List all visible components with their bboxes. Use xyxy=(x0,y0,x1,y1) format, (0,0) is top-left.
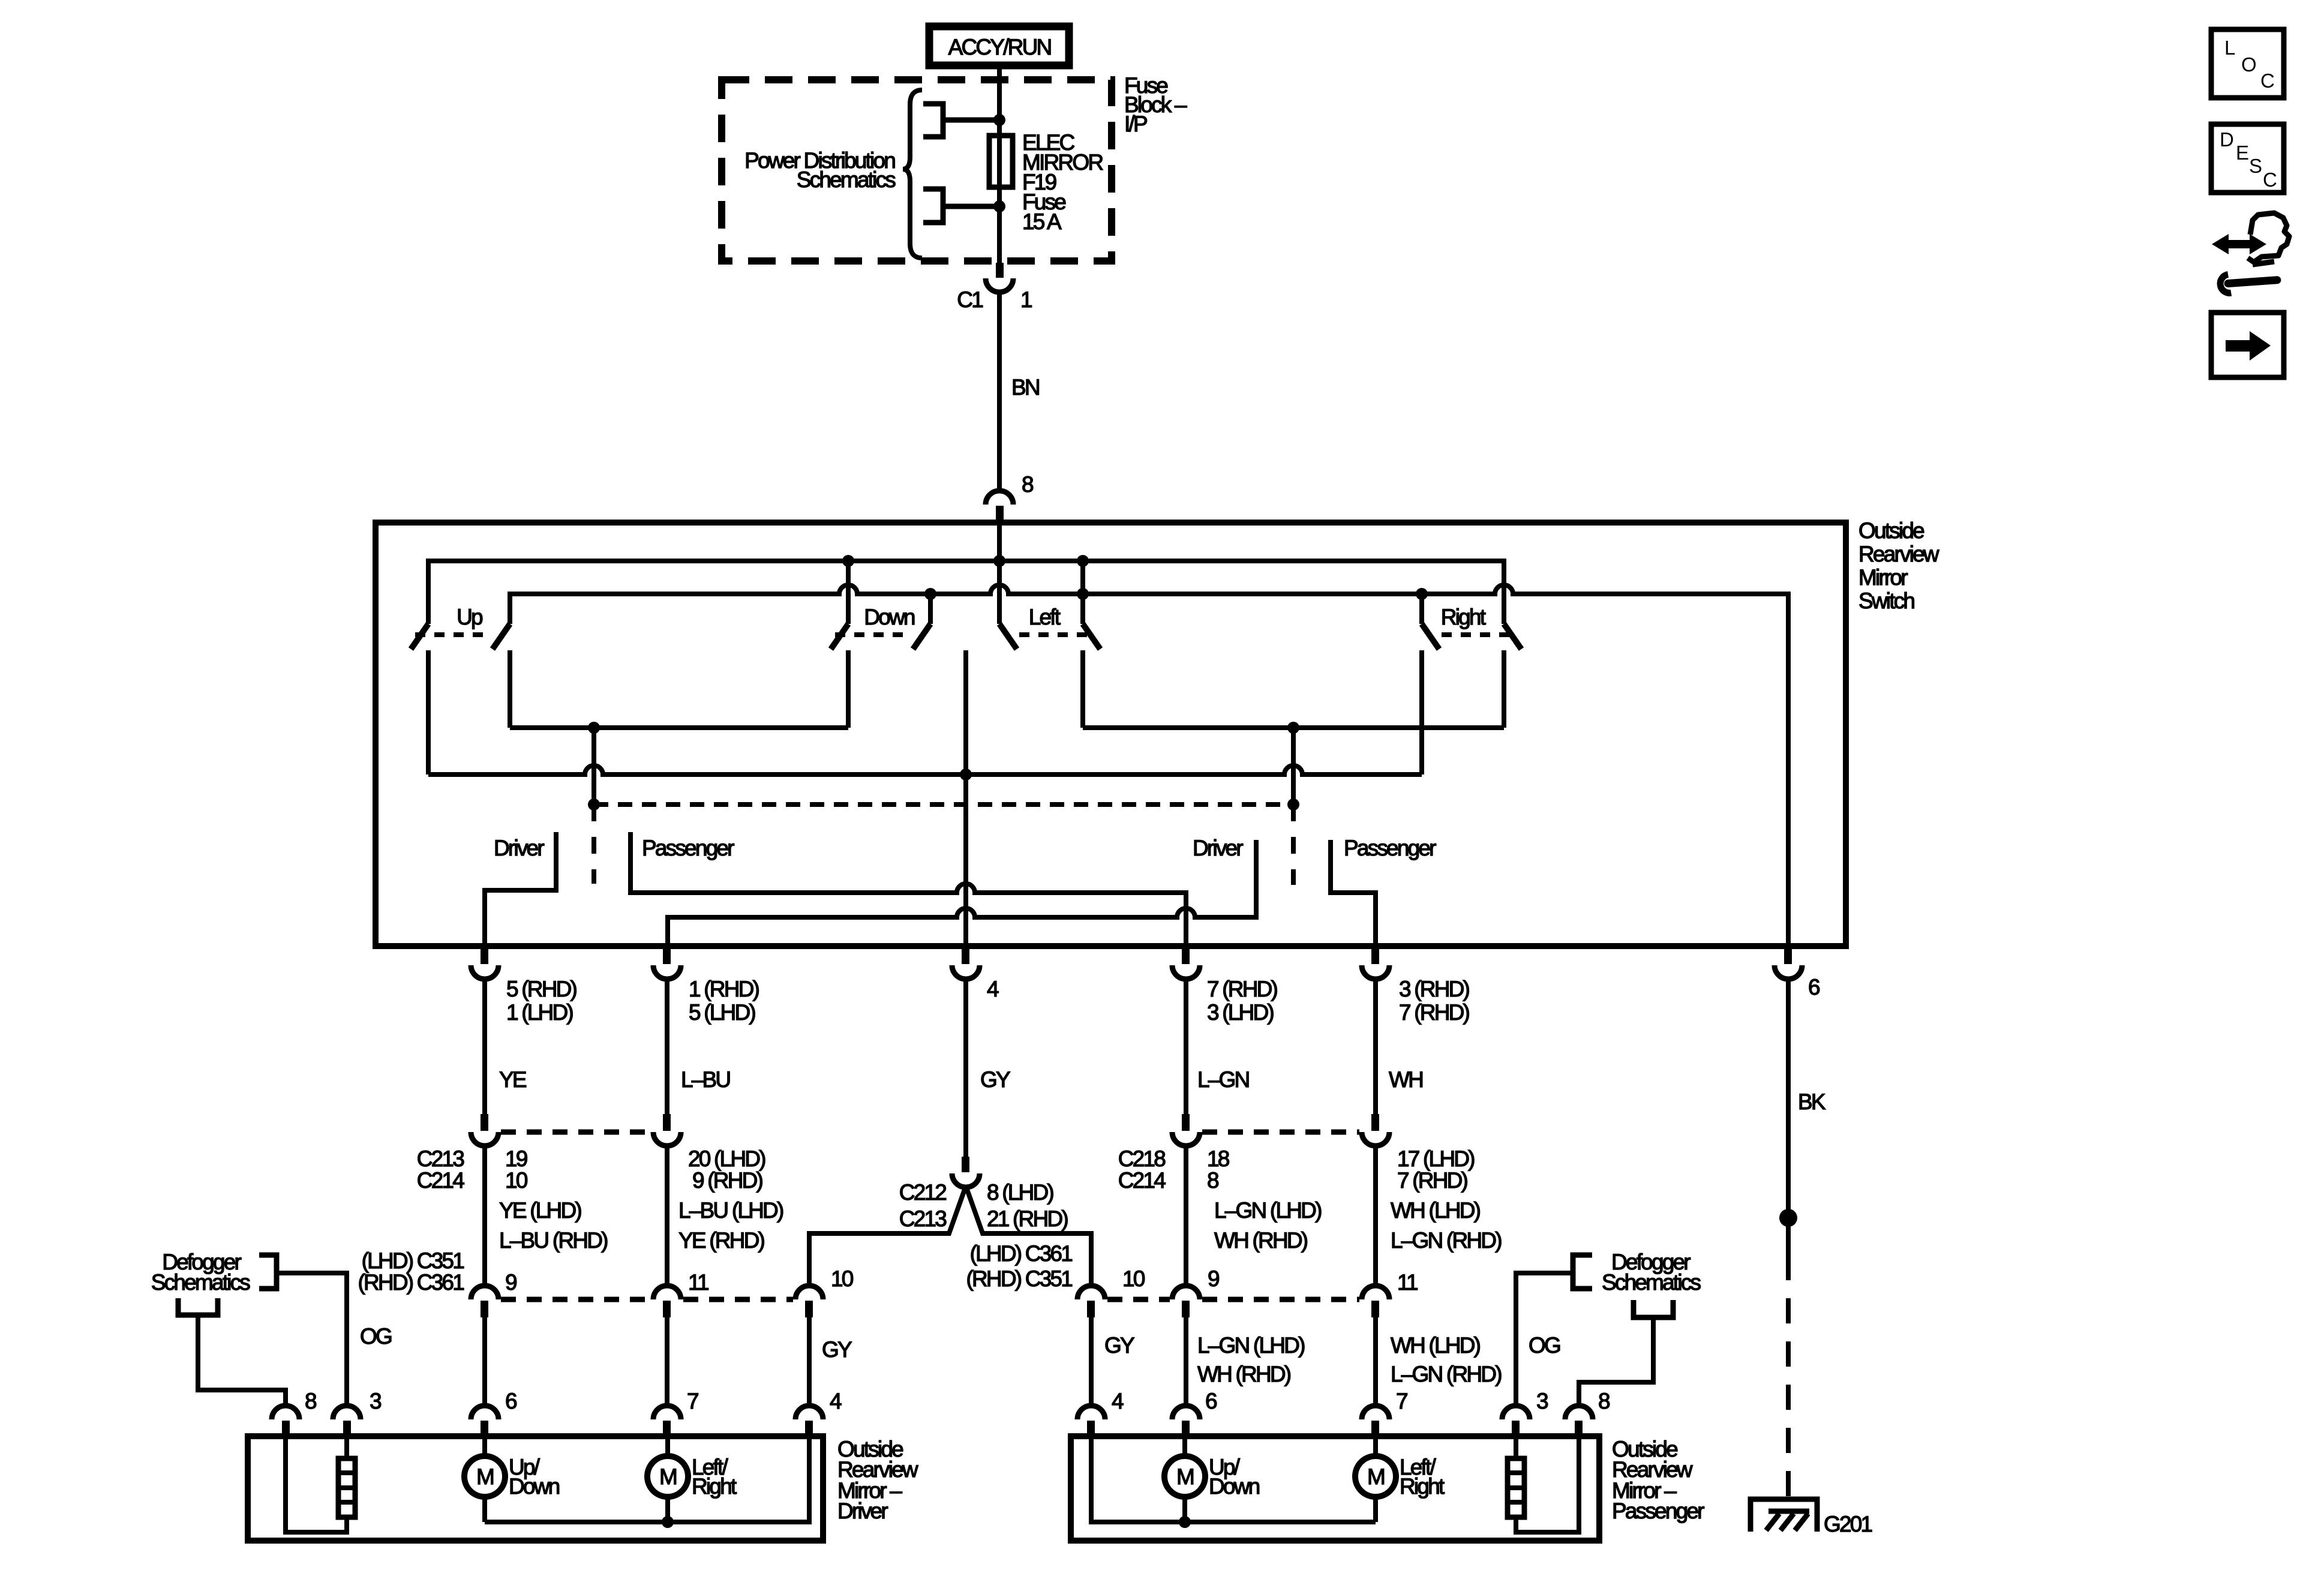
junction dot row2 right-left contact xyxy=(1416,588,1428,600)
wire horizontal link right y1213 xyxy=(1083,725,1504,730)
wire from ACCY/RUN through fuse xyxy=(997,65,1002,267)
wire WH harness segment xyxy=(1373,1145,1378,1286)
svg-text:8 (LHD): 8 (LHD) xyxy=(987,1180,1053,1205)
connector switch pin 1(RHD)/5(LHD) xyxy=(653,948,759,1025)
svg-text:9: 9 xyxy=(505,1270,517,1295)
wire OG defogger to driver pin 3 xyxy=(277,1273,347,1404)
label Outside Rearview Mirror - Driver xyxy=(837,1437,918,1523)
wire up-right lower xyxy=(508,650,512,728)
connector driver pin 4 xyxy=(795,1389,842,1436)
svg-text:(RHD) C361: (RHD) C361 xyxy=(358,1270,464,1295)
svg-text:M: M xyxy=(1367,1464,1384,1489)
wire right-left lower to rail xyxy=(1419,650,1424,775)
wire row2 bus with hops at 1414 1666 2507 xyxy=(510,585,1788,946)
svg-text:C: C xyxy=(2263,169,2277,191)
svg-text:6: 6 xyxy=(505,1389,517,1413)
driver mirror box xyxy=(248,1436,823,1541)
wire L-GN harness segment xyxy=(1184,1145,1188,1286)
svg-text:8: 8 xyxy=(305,1389,316,1413)
svg-text:M: M xyxy=(476,1464,493,1489)
connector driver pin 7 xyxy=(653,1389,698,1436)
svg-text:Passenger: Passenger xyxy=(1344,836,1436,860)
connector passenger pin 8 xyxy=(1565,1389,1610,1436)
svg-text:OG: OG xyxy=(1529,1333,1560,1358)
connector pin 8 at switch xyxy=(986,472,1033,524)
svg-text:9: 9 xyxy=(1208,1266,1219,1291)
mechanical link dashes Left xyxy=(1019,632,1095,637)
wire center common lower to pin 4 xyxy=(963,650,968,948)
wire YE/L-BU harness segment left xyxy=(482,1145,487,1286)
svg-text:4: 4 xyxy=(1112,1389,1124,1413)
switch blade right-left xyxy=(1422,624,1439,649)
junction dot row2 left-right contact xyxy=(1077,588,1089,600)
junction dot drop-left on y1213 xyxy=(588,722,600,734)
svg-text:L–GN (RHD): L–GN (RHD) xyxy=(1391,1362,1502,1386)
connector C212/C213 pin 8(LHD)/21(RHD) crossover xyxy=(899,1157,1068,1231)
wire drop-right solid xyxy=(1291,728,1296,804)
svg-text:BK: BK xyxy=(1798,1089,1826,1114)
svg-text:7: 7 xyxy=(687,1389,698,1413)
wire left-right contact upper xyxy=(1080,561,1085,624)
bracket defogger left xyxy=(259,1255,277,1289)
svg-text:Rearview: Rearview xyxy=(1858,542,1939,566)
svg-text:L–BU (LHD): L–BU (LHD) xyxy=(678,1198,783,1223)
mechanical link dashes Right xyxy=(1442,632,1517,637)
connector driver pin 6 xyxy=(471,1389,517,1436)
wire driver motor common return xyxy=(485,1436,809,1522)
svg-text:YE: YE xyxy=(499,1067,527,1092)
svg-text:YE (LHD): YE (LHD) xyxy=(499,1198,581,1223)
wire YE switch to C213 xyxy=(482,978,487,1114)
junction dot row2 down-right contact xyxy=(924,588,936,600)
label ELEC MIRROR F19 Fuse 15 A xyxy=(1022,130,1103,234)
defogger element driver xyxy=(286,1436,355,1532)
connector C361/C351 pin 9 right xyxy=(1172,1266,1219,1317)
svg-text:8: 8 xyxy=(1598,1389,1610,1413)
wire L-BU to driver mirror pin 7 xyxy=(665,1316,669,1404)
label Fuse Block - I/P xyxy=(1124,73,1187,136)
switch blade right-right xyxy=(1504,624,1521,649)
junction splice on BK wire xyxy=(1779,1209,1797,1227)
wire up-left lower to rail xyxy=(426,650,431,775)
svg-text:21 (RHD): 21 (RHD) xyxy=(987,1206,1068,1231)
svg-text:WH (LHD): WH (LHD) xyxy=(1391,1198,1481,1223)
svg-text:Up: Up xyxy=(457,605,483,629)
svg-text:Driver: Driver xyxy=(494,836,544,860)
wire WH switch to C218 xyxy=(1373,978,1378,1114)
label Defogger Schematics left xyxy=(151,1250,251,1295)
svg-text:15 A: 15 A xyxy=(1022,209,1062,234)
svg-text:7 (RHD): 7 (RHD) xyxy=(1399,1000,1470,1025)
junction dot above fuse xyxy=(993,114,1005,126)
mechanical link dashed vertical right xyxy=(1291,804,1296,885)
wire passenger-right output to pin 3RHD/7RHD xyxy=(1331,840,1376,948)
wire passenger-left output to pin 7RHD/3LHD with hop at 1610 xyxy=(630,832,1186,948)
svg-text:E: E xyxy=(2236,142,2249,164)
connector switch pin 7(RHD)/3(LHD) xyxy=(1172,948,1278,1025)
mechanical link dashes Up xyxy=(415,632,491,637)
label Power Distribution Schematics xyxy=(744,148,896,192)
svg-text:Outside: Outside xyxy=(1858,518,1924,543)
junction dot row1 down-left contact xyxy=(842,555,854,567)
svg-text:4: 4 xyxy=(830,1389,842,1413)
label Outside Rearview Mirror Switch xyxy=(1858,518,1939,613)
svg-text:L–GN: L–GN xyxy=(1197,1067,1249,1092)
svg-text:Down: Down xyxy=(1209,1474,1260,1499)
svg-text:20 (LHD): 20 (LHD) xyxy=(688,1146,765,1171)
svg-text:Schematics: Schematics xyxy=(797,167,896,192)
fuse ELEC MIRROR F19 15 A xyxy=(989,136,1013,187)
wire defogger to passenger pin 8 xyxy=(1579,1317,1653,1404)
svg-text:1 (LHD): 1 (LHD) xyxy=(506,1000,573,1025)
wire BN from C1 to switch pin 8 xyxy=(997,291,1002,491)
svg-text:WH: WH xyxy=(1389,1067,1422,1092)
switch blade up-left xyxy=(411,624,428,649)
switch blade down-left xyxy=(831,624,848,649)
svg-text:GY: GY xyxy=(822,1337,852,1362)
dashed connector interface C218 row right xyxy=(1202,1130,1359,1135)
connector C213/C214 pin 19/10 xyxy=(417,1114,528,1193)
connector C351/C361 pin 9 xyxy=(471,1270,517,1317)
connector C361/C351 pin 10 right xyxy=(1077,1266,1145,1317)
connector passenger pin 3 xyxy=(1502,1389,1548,1436)
svg-text:Right: Right xyxy=(1400,1474,1445,1499)
motor driver left/right xyxy=(647,1436,737,1522)
wire GY split right branch xyxy=(966,1186,1091,1286)
motor passenger left/right xyxy=(1355,1436,1445,1522)
fuse block dashed outline (Fuse Block - I/P) xyxy=(722,80,1112,261)
wire GY to driver mirror pin 4 xyxy=(807,1316,812,1404)
svg-text:8: 8 xyxy=(1207,1168,1218,1193)
svg-text:L–BU (RHD): L–BU (RHD) xyxy=(499,1228,608,1253)
svg-text:(RHD) C351: (RHD) C351 xyxy=(966,1266,1072,1291)
connector switch pin 4 xyxy=(952,948,999,1001)
wire right-left contact upper xyxy=(1419,594,1424,624)
svg-text:WH (RHD): WH (RHD) xyxy=(1197,1362,1291,1386)
svg-text:6: 6 xyxy=(1205,1389,1217,1413)
svg-text:L–GN (LHD): L–GN (LHD) xyxy=(1197,1333,1305,1358)
junction dot row1 left-right contact xyxy=(1077,555,1089,567)
junction dot drop-right on y1213 xyxy=(1287,722,1299,734)
svg-text:M: M xyxy=(659,1464,676,1489)
svg-text:Down: Down xyxy=(509,1474,560,1499)
motor driver up/down xyxy=(464,1436,560,1522)
switch blade left-right xyxy=(1083,624,1100,649)
mechanical link dashed horizontal y1341 xyxy=(594,802,1293,807)
svg-text:I/P: I/P xyxy=(1124,112,1147,136)
bracket defogger right lower xyxy=(1634,1300,1673,1317)
svg-text:L–GN (RHD): L–GN (RHD) xyxy=(1391,1228,1502,1253)
svg-text:C218: C218 xyxy=(1118,1146,1165,1171)
svg-text:Schematics: Schematics xyxy=(151,1270,251,1295)
svg-text:WH (RHD): WH (RHD) xyxy=(1214,1228,1308,1253)
switch blade up-right xyxy=(493,624,510,649)
svg-text:1: 1 xyxy=(1020,287,1032,312)
svg-text:5 (LHD): 5 (LHD) xyxy=(689,1000,755,1025)
svg-text:C: C xyxy=(2260,70,2275,92)
svg-text:L–BU: L–BU xyxy=(681,1067,729,1092)
connector C218/C214 pin 18/8 xyxy=(1118,1114,1229,1193)
junction dot passenger return xyxy=(1179,1516,1191,1528)
svg-text:Schematics: Schematics xyxy=(1602,1270,1701,1295)
svg-text:Right: Right xyxy=(1441,605,1487,629)
label Outside Rearview Mirror - Passenger xyxy=(1612,1437,1704,1523)
wire feed inside switch from pin 8 xyxy=(997,523,1002,624)
svg-text:4: 4 xyxy=(987,977,999,1001)
label Defogger Schematics right xyxy=(1602,1250,1701,1295)
dashed connector interface C213 row left xyxy=(501,1130,651,1135)
icon LOC box xyxy=(2211,29,2284,98)
defogger element passenger xyxy=(1508,1436,1579,1532)
svg-text:Mirror: Mirror xyxy=(1858,565,1908,590)
wire OG defogger to passenger pin 3 xyxy=(1516,1273,1573,1404)
svg-text:O: O xyxy=(2241,53,2257,76)
svg-text:Passenger: Passenger xyxy=(642,836,734,860)
svg-text:Passenger: Passenger xyxy=(1612,1499,1704,1523)
outside rearview mirror switch box xyxy=(376,523,1846,946)
brace pointing to power distribution xyxy=(903,90,922,258)
svg-text:C214: C214 xyxy=(1118,1168,1166,1193)
svg-text:11: 11 xyxy=(688,1270,708,1295)
svg-text:M: M xyxy=(1176,1464,1193,1489)
svg-text:10: 10 xyxy=(831,1266,854,1291)
svg-text:Left: Left xyxy=(1029,605,1061,629)
svg-text:Driver: Driver xyxy=(837,1499,888,1523)
svg-text:10: 10 xyxy=(1122,1266,1145,1291)
junction dot mech right xyxy=(1287,798,1299,810)
connector tab lower xyxy=(923,189,999,223)
mechanical link dashed vertical left xyxy=(591,804,596,884)
svg-text:GY: GY xyxy=(1104,1333,1134,1358)
junction dot center common on rail xyxy=(960,769,972,781)
svg-text:7 (RHD): 7 (RHD) xyxy=(1397,1168,1468,1193)
wire L-GN switch to C218 xyxy=(1184,978,1188,1114)
connector C351/C361 pin 10 left xyxy=(795,1266,854,1317)
icon hand with wrench xyxy=(2212,213,2289,293)
svg-text:7 (RHD): 7 (RHD) xyxy=(1207,977,1278,1001)
svg-text:(LHD) C351: (LHD) C351 xyxy=(362,1248,464,1273)
svg-text:11: 11 xyxy=(1397,1270,1418,1295)
svg-text:3 (RHD): 3 (RHD) xyxy=(1399,977,1470,1001)
svg-text:BN: BN xyxy=(1011,375,1039,400)
connector C1 pin 1 xyxy=(957,263,1032,312)
connector switch pin 3(RHD)/7(RHD) xyxy=(1362,948,1470,1025)
wire down-left contact upper xyxy=(846,561,851,624)
icon DESC box xyxy=(2211,124,2284,193)
connector switch pin 6 xyxy=(1774,948,1819,999)
connector passenger pin 6 xyxy=(1172,1389,1217,1436)
svg-text:OG: OG xyxy=(360,1324,392,1349)
svg-text:C1: C1 xyxy=(957,287,983,312)
svg-text:L: L xyxy=(2224,37,2235,59)
bracket defogger right xyxy=(1573,1255,1592,1289)
wire drop-left solid xyxy=(591,728,596,804)
svg-text:3: 3 xyxy=(1536,1389,1548,1413)
wire L-GN to passenger mirror pin 6 xyxy=(1184,1316,1188,1404)
svg-text:Down: Down xyxy=(864,605,915,629)
wire rail y1291 with hops at 990 and 2156 xyxy=(428,766,1422,775)
bracket defogger left lower xyxy=(178,1298,218,1315)
svg-text:18: 18 xyxy=(1207,1146,1229,1171)
connector passenger pin 7 xyxy=(1362,1389,1407,1436)
connector switch pin 5(RHD)/1(LHD) xyxy=(471,948,577,1025)
wire YE to driver mirror pin 6 xyxy=(482,1316,487,1404)
svg-text:C213: C213 xyxy=(899,1206,946,1231)
wire passenger motor common return xyxy=(1091,1436,1376,1522)
svg-text:WH (LHD): WH (LHD) xyxy=(1391,1333,1481,1358)
svg-text:GY: GY xyxy=(980,1067,1010,1092)
wire right-right lower xyxy=(1502,650,1506,728)
junction dot driver return xyxy=(662,1516,674,1528)
svg-text:D: D xyxy=(2220,128,2234,151)
connector tab upper xyxy=(923,104,999,137)
wire horizontal link left y1213 xyxy=(510,725,848,730)
wire L-BU/YE harness segment xyxy=(665,1145,669,1286)
connector C213/C214 pin 20(LHD)/9(RHD) xyxy=(653,1114,765,1193)
svg-text:19: 19 xyxy=(505,1146,527,1171)
svg-text:9 (RHD): 9 (RHD) xyxy=(692,1168,763,1193)
svg-text:3 (LHD): 3 (LHD) xyxy=(1207,1000,1274,1025)
wire row1 bus xyxy=(428,561,1504,624)
icon arrow box xyxy=(2211,313,2284,377)
junction dot feed to row1 xyxy=(993,555,1005,567)
junction dot below fuse xyxy=(993,200,1005,212)
connector driver pin 3 xyxy=(333,1389,381,1436)
svg-text:5 (RHD): 5 (RHD) xyxy=(506,977,577,1001)
svg-text:7: 7 xyxy=(1396,1389,1407,1413)
mechanical link dashes Down xyxy=(835,632,911,637)
connector driver pin 8 xyxy=(272,1389,316,1436)
wire BK dashed to ground xyxy=(1786,1255,1791,1496)
wire BK switch pin 6 down xyxy=(1786,978,1791,1255)
wire GY switch to C212 xyxy=(963,978,968,1157)
wire down-left lower xyxy=(846,650,851,728)
connector passenger pin 4 xyxy=(1077,1389,1124,1436)
wire down-right contact upper xyxy=(928,594,933,624)
svg-text:3: 3 xyxy=(370,1389,381,1413)
svg-text:C212: C212 xyxy=(899,1180,946,1205)
ground G201 xyxy=(1750,1499,1872,1536)
wire driver-right output to pin 1RHD/5LHD with hops at 1610 1977 xyxy=(668,840,1256,948)
svg-text:8: 8 xyxy=(1022,472,1033,497)
switch blade left-left xyxy=(999,624,1017,649)
svg-text:C213: C213 xyxy=(417,1146,464,1171)
switch blade down-right xyxy=(913,624,930,649)
svg-text:YE (RHD): YE (RHD) xyxy=(678,1228,765,1253)
svg-text:Right: Right xyxy=(692,1474,737,1499)
wire L-BU switch to C213 xyxy=(665,978,669,1114)
svg-text:Switch: Switch xyxy=(1858,589,1914,613)
svg-text:ACCY/RUN: ACCY/RUN xyxy=(948,35,1051,59)
svg-text:C214: C214 xyxy=(417,1168,464,1193)
svg-text:10: 10 xyxy=(505,1168,528,1193)
wire defogger to driver pin 8 xyxy=(198,1315,286,1404)
svg-text:1 (RHD): 1 (RHD) xyxy=(689,977,759,1001)
dashed connector interface C351 row segments xyxy=(501,1297,651,1302)
connector C218/C214 pin 17(LHD)/7(RHD) xyxy=(1362,1114,1475,1193)
svg-text:Driver: Driver xyxy=(1193,836,1243,860)
wire WH to passenger mirror pin 7 xyxy=(1373,1316,1378,1404)
connector C361/C351 pin 11 right xyxy=(1362,1270,1418,1317)
svg-text:(LHD) C361: (LHD) C361 xyxy=(970,1241,1073,1266)
svg-text:S: S xyxy=(2249,155,2262,177)
svg-text:17 (LHD): 17 (LHD) xyxy=(1397,1146,1475,1171)
svg-text:6: 6 xyxy=(1808,975,1819,999)
wire driver-left output to pin 5RHD/1LHD xyxy=(485,832,556,948)
junction dot mech left xyxy=(588,798,600,810)
connector C351/C361 pin 11 xyxy=(653,1270,708,1317)
node ACCY/RUN power feed box xyxy=(929,26,1069,65)
wire left-right lower xyxy=(1080,650,1085,728)
wire GY to passenger mirror pin 4 xyxy=(1089,1316,1094,1404)
wire GY split left branch xyxy=(809,1186,966,1286)
svg-text:G201: G201 xyxy=(1824,1512,1872,1536)
motor passenger up/down xyxy=(1164,1436,1260,1522)
svg-text:L–GN (LHD): L–GN (LHD) xyxy=(1214,1198,1322,1223)
passenger mirror box xyxy=(1071,1436,1599,1541)
